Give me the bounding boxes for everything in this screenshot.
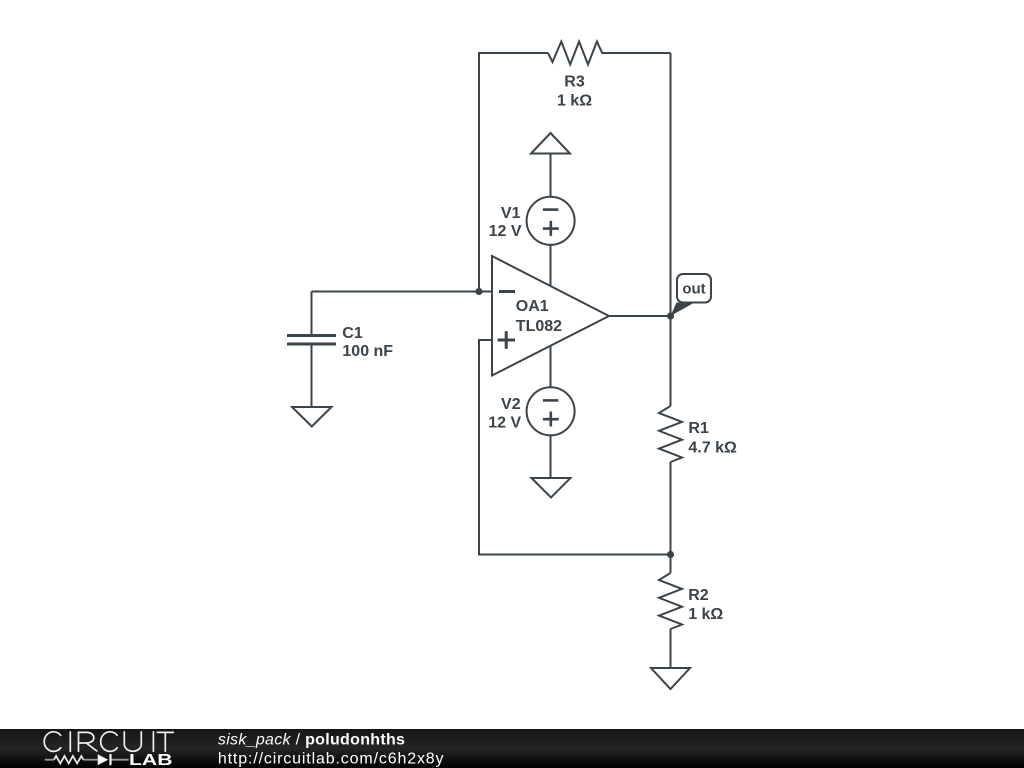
svg-text:http://circuitlab.com/c6h2x8y: http://circuitlab.com/c6h2x8y: [218, 751, 445, 768]
svg-text:1 kΩ: 1 kΩ: [688, 606, 723, 623]
svg-text:out: out: [682, 281, 705, 298]
svg-text:R1: R1: [688, 420, 709, 437]
svg-text:TL082: TL082: [516, 318, 562, 335]
svg-text:100 nF: 100 nF: [342, 343, 393, 360]
svg-text:R2: R2: [688, 587, 709, 604]
svg-text:V2: V2: [501, 396, 521, 413]
svg-text:OA1: OA1: [516, 298, 549, 315]
svg-text:12 V: 12 V: [488, 415, 521, 432]
svg-text:LAB: LAB: [129, 752, 173, 768]
svg-text:V1: V1: [501, 205, 521, 222]
svg-text:4.7 kΩ: 4.7 kΩ: [688, 440, 737, 457]
svg-text:1 kΩ: 1 kΩ: [557, 93, 592, 110]
svg-text:C1: C1: [342, 325, 363, 342]
svg-text:sisk_pack / poludonhths: sisk_pack / poludonhths: [218, 732, 405, 749]
svg-text:12 V: 12 V: [489, 223, 522, 240]
svg-text:R3: R3: [564, 74, 585, 91]
